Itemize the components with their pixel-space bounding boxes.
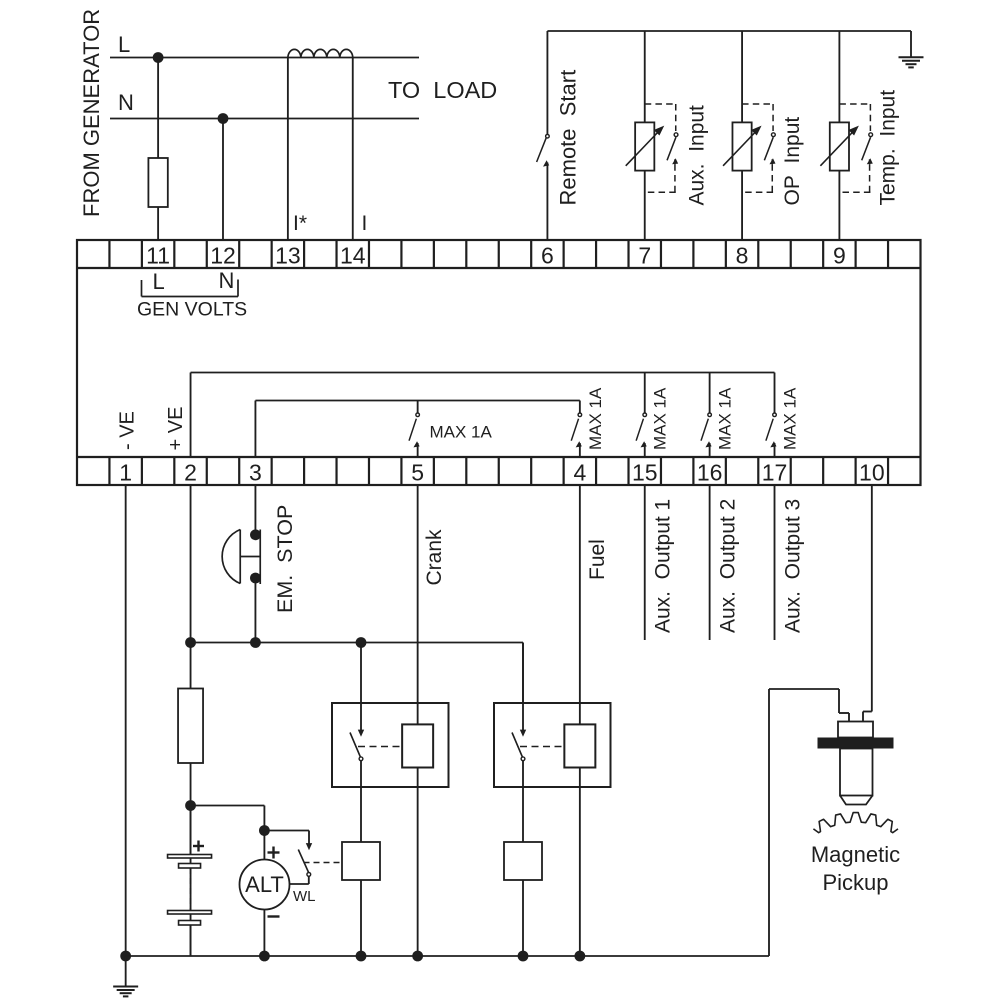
svg-text:6: 6 [541,243,554,269]
svg-text:10: 10 [859,460,885,486]
svg-text:I*: I* [293,212,307,235]
svg-text:16: 16 [697,460,723,486]
svg-text:Magnetic: Magnetic [811,842,900,867]
svg-text:7: 7 [638,243,651,269]
svg-text:12: 12 [210,243,236,269]
svg-text:- VE: - VE [117,411,139,450]
svg-text:N: N [219,268,235,293]
svg-text:14: 14 [340,243,366,269]
svg-text:TO LOAD: TO LOAD [388,77,497,103]
svg-text:13: 13 [275,243,301,269]
svg-text:3: 3 [249,460,262,486]
svg-text:Aux. Output 1: Aux. Output 1 [652,499,675,633]
svg-text:L: L [153,269,165,294]
svg-text:N: N [118,90,134,115]
svg-text:ALT: ALT [245,872,284,897]
svg-text:L: L [118,32,130,57]
svg-text:9: 9 [833,243,846,269]
svg-text:Pickup: Pickup [822,870,888,895]
svg-text:I: I [362,212,368,235]
svg-text:MAX 1A: MAX 1A [586,387,605,450]
svg-text:GEN VOLTS: GEN VOLTS [137,299,247,321]
svg-text:MAX 1A: MAX 1A [651,387,670,450]
svg-text:MAX 1A: MAX 1A [781,387,800,450]
svg-text:11: 11 [146,243,170,269]
svg-text:8: 8 [736,243,749,269]
svg-text:Aux. Output 2: Aux. Output 2 [717,499,740,633]
svg-text:Fuel: Fuel [586,539,609,580]
svg-text:MAX 1A: MAX 1A [430,423,493,442]
svg-text:Crank: Crank [423,529,446,586]
svg-text:Remote Start: Remote Start [556,70,581,206]
svg-text:EM. STOP: EM. STOP [273,505,297,613]
svg-text:MAX 1A: MAX 1A [716,387,735,450]
svg-text:Aux. Input: Aux. Input [686,105,709,206]
svg-text:FROM GENERATOR: FROM GENERATOR [79,9,104,217]
svg-text:+ VE: + VE [165,407,187,451]
svg-text:Aux. Output 3: Aux. Output 3 [782,499,805,633]
svg-text:1: 1 [119,460,132,486]
svg-text:17: 17 [762,460,788,486]
svg-text:OP Input: OP Input [781,117,804,206]
svg-text:4: 4 [573,460,586,486]
svg-text:WL: WL [293,888,316,905]
svg-text:Temp. Input: Temp. Input [877,90,900,206]
svg-text:2: 2 [184,460,197,486]
svg-text:15: 15 [632,460,658,486]
svg-text:5: 5 [411,460,424,486]
